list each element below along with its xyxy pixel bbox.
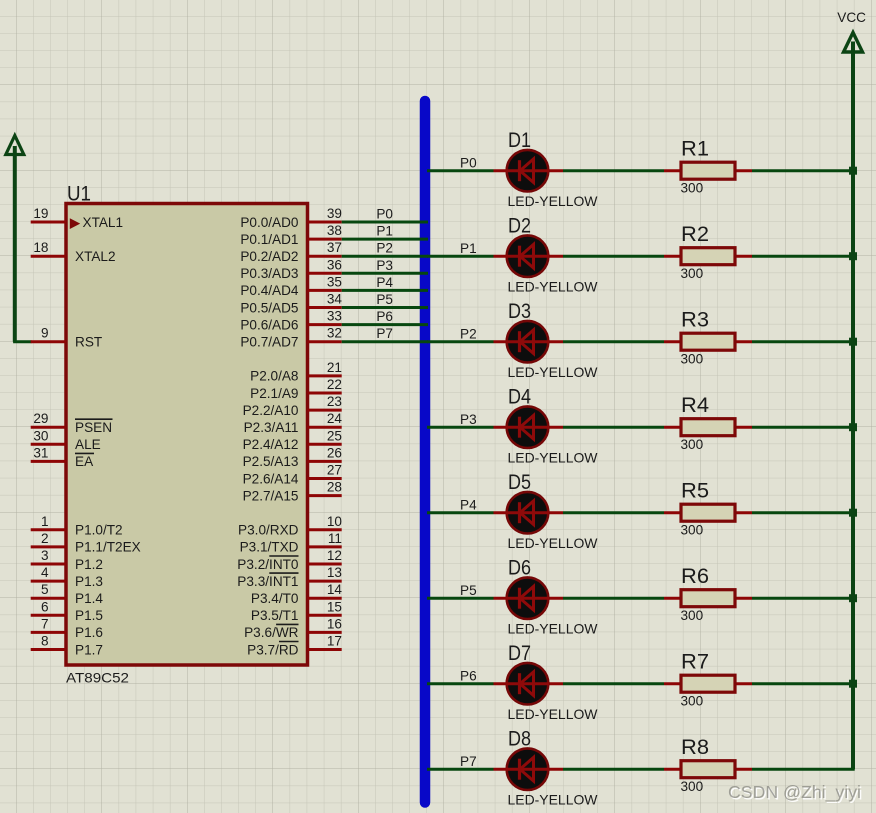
svg-text:P1.0/T2: P1.0/T2 [75,523,123,538]
svg-text:12: 12 [327,548,342,563]
pin 10 (P3.0/RXD) stub + number + name [238,514,342,538]
svg-text:P2.6/A14: P2.6/A14 [243,471,299,486]
LED D3 [494,321,564,363]
svg-text:D3: D3 [508,299,531,323]
svg-text:16: 16 [327,616,342,631]
LED D1 [494,150,564,192]
svg-text:LED-YELLOW: LED-YELLOW [508,622,598,637]
svg-text:P2.7/A15: P2.7/A15 [243,488,299,503]
pin 27 (P2.6/A14) stub + number + name [243,463,342,487]
svg-text:P2.4/A12: P2.4/A12 [243,437,299,452]
svg-text:18: 18 [33,240,48,255]
wire R4 to VCC rail [752,426,855,429]
pin 28 (P2.7/A15) stub + number + name [243,480,342,504]
svg-text:U1: U1 [67,181,91,205]
power symbol (up arrow, left) [6,136,24,342]
pin 30 (ALE) stub + number + name [31,428,101,452]
svg-text:300: 300 [681,694,704,709]
svg-text:P1.5: P1.5 [75,608,103,623]
svg-text:P1.4: P1.4 [75,591,103,606]
pin 39 (P0.0/AD0) stub + number + name [240,206,342,230]
svg-text:23: 23 [327,394,342,409]
svg-text:LED-YELLOW: LED-YELLOW [508,793,598,808]
svg-text:P0.2/AD2: P0.2/AD2 [240,249,298,264]
svg-text:P1.1/T2EX: P1.1/T2EX [75,540,141,555]
svg-text:EA: EA [75,454,94,469]
svg-text:2: 2 [41,531,49,546]
svg-text:R8: R8 [681,735,709,759]
pin 2 (P1.1/T2EX) stub + number + name [31,531,141,555]
wire D2 to R2 [563,255,664,258]
svg-text:P7: P7 [376,326,393,341]
pin 37 (P0.2/AD2) stub + number + name [240,240,342,264]
bus (vertical blue) [420,101,431,803]
svg-text:9: 9 [41,326,49,341]
wire P0.5 pin to bus [342,306,428,309]
wire R8 to VCC rail [752,768,855,771]
svg-text:14: 14 [327,582,343,597]
wire P0.6 pin to bus [342,323,428,326]
junction at VCC rail row 5 [849,509,857,517]
wire R5 to VCC rail [752,511,855,514]
svg-text:P3.0/RXD: P3.0/RXD [238,523,299,538]
svg-text:D8: D8 [508,727,531,751]
svg-text:P3.6/WR: P3.6/WR [244,625,299,640]
svg-text:P3.1/TXD: P3.1/TXD [240,540,299,555]
svg-text:35: 35 [327,274,342,289]
svg-text:P1.3: P1.3 [75,574,103,589]
svg-text:P0.5/AD5: P0.5/AD5 [240,300,298,315]
junction at VCC rail row 1 [849,167,857,175]
svg-text:R6: R6 [681,564,709,588]
resistor R1 [664,162,752,179]
pin 34 (P0.5/AD5) stub + number + name [240,292,342,316]
svg-text:5: 5 [41,582,49,597]
svg-text:P2.0/A8: P2.0/A8 [250,369,298,384]
svg-text:P3.4/T0: P3.4/T0 [251,591,299,606]
svg-text:P1: P1 [376,224,393,239]
svg-text:25: 25 [327,428,342,443]
svg-text:34: 34 [327,292,343,307]
svg-text:D2: D2 [508,214,531,238]
svg-text:38: 38 [327,223,342,238]
pin 16 (P3.6/WR) stub + number + name [244,616,342,640]
svg-text:LED-YELLOW: LED-YELLOW [508,365,598,380]
svg-text:39: 39 [327,206,342,221]
resistor R7 [664,675,752,692]
wire D6 to R6 [563,597,664,600]
wire bus to LED D8 [427,768,494,771]
svg-text:P7: P7 [460,754,477,769]
svg-text:P0: P0 [460,156,477,171]
pin 14 (P3.4/T0) stub + number + name [251,582,343,606]
svg-text:300: 300 [681,266,704,281]
svg-text:P2.1/A9: P2.1/A9 [250,386,298,401]
pin 1 (P1.0/T2) stub + number + name [31,514,123,538]
svg-text:P5: P5 [376,292,393,307]
svg-text:P0.7/AD7: P0.7/AD7 [240,335,298,350]
svg-text:300: 300 [681,437,704,452]
svg-text:300: 300 [681,352,704,367]
pin 19 (XTAL1) stub + number + name [31,206,123,230]
wire D8 to R8 [563,768,664,771]
svg-text:P3: P3 [460,412,477,427]
svg-text:P0.4/AD4: P0.4/AD4 [240,283,299,298]
svg-text:D5: D5 [508,470,531,494]
wire VCC rail (vertical right) [851,42,855,770]
svg-text:P1.7: P1.7 [75,642,103,657]
svg-text:AT89C52: AT89C52 [66,671,129,686]
pin 31 (EA) stub + number + name [31,445,94,469]
svg-text:1: 1 [41,514,49,529]
svg-text:300: 300 [681,779,704,794]
pin 18 (XTAL2) stub + number + name [31,240,116,264]
pin 4 (P1.3) stub + number + name [31,565,103,589]
wire R6 to VCC rail [752,597,855,600]
pin 8 (P1.7) stub + number + name [31,634,103,658]
pin 35 (P0.4/AD4) stub + number + name [240,274,342,298]
junction at VCC rail row 2 [849,252,857,260]
svg-text:33: 33 [327,309,342,324]
wire D5 to R5 [563,511,664,514]
svg-text:8: 8 [41,634,49,649]
resistor R5 [664,504,752,521]
svg-text:VCC: VCC [837,10,866,25]
pin 6 (P1.5) stub + number + name [31,599,103,623]
resistor R6 [664,590,752,607]
svg-text:P1: P1 [460,241,477,256]
wire R2 to VCC rail [752,255,855,258]
svg-text:R1: R1 [681,136,709,160]
svg-text:P0.6/AD6: P0.6/AD6 [240,317,298,332]
svg-text:XTAL1: XTAL1 [83,215,124,230]
svg-text:P3.5/T1: P3.5/T1 [251,608,299,623]
wire P0.3 pin to bus [342,272,428,275]
wire bus to LED D3 [427,340,494,343]
svg-text:P2: P2 [376,241,393,256]
svg-text:P2.5/A13: P2.5/A13 [243,454,299,469]
pin 3 (P1.2) stub + number + name [31,548,103,572]
wire P0.1 pin to bus [342,238,428,241]
svg-text:P0.0/AD0: P0.0/AD0 [240,215,299,230]
svg-text:300: 300 [681,523,704,538]
svg-text:D7: D7 [508,641,531,665]
LED D6 [494,577,564,619]
wire P0.7 pin to bus [342,340,428,343]
wire P0.2 pin to bus [342,255,428,258]
pin 11 (P3.1/TXD) stub + number + name [240,531,342,555]
svg-text:P2.3/A11: P2.3/A11 [244,420,299,435]
wire bus to LED D6 [427,597,494,600]
pin 15 (P3.5/T1) stub + number + name [251,599,342,623]
svg-text:29: 29 [33,411,48,426]
power symbol VCC (top right) [837,10,866,52]
svg-text:P0: P0 [376,207,393,222]
svg-text:26: 26 [327,445,342,460]
pin 12 (P3.2/INT0) stub + number + name [237,548,342,572]
wire D1 to R1 [563,169,664,172]
resistor R4 [664,419,752,436]
svg-text:300: 300 [681,181,704,196]
pin 29 (PSEN) stub + number + name [31,411,113,435]
wire bus to LED D7 [427,682,494,685]
wire bus to LED D1 [427,169,494,172]
wire bus to LED D4 [427,426,494,429]
svg-text:15: 15 [327,599,342,614]
svg-text:LED-YELLOW: LED-YELLOW [508,707,598,722]
svg-text:XTAL2: XTAL2 [75,249,116,264]
svg-text:R2: R2 [681,222,709,246]
svg-text:P3.7/RD: P3.7/RD [247,642,299,657]
svg-text:R7: R7 [681,649,709,673]
wire P0.4 pin to bus [342,289,428,292]
wire P0.0 pin to bus [342,221,428,224]
watermark CSDN @Zhi_yiyi [728,782,862,804]
svg-text:24: 24 [327,411,343,426]
svg-text:11: 11 [328,531,342,546]
svg-text:P1.2: P1.2 [75,557,103,572]
svg-text:10: 10 [327,514,343,529]
pin 36 (P0.3/AD3) stub + number + name [240,257,342,281]
svg-text:RST: RST [75,335,102,350]
svg-text:P3: P3 [376,258,393,273]
wire R7 to VCC rail [752,682,855,685]
pin 17 (P3.7/RD) stub + number + name [247,634,342,658]
svg-text:PSEN: PSEN [75,420,112,435]
svg-text:19: 19 [33,206,48,221]
pin 26 (P2.5/A13) stub + number + name [243,445,342,469]
junction at VCC rail row 4 [849,423,857,431]
svg-text:R3: R3 [681,307,709,331]
pin 23 (P2.2/A10) stub + number + name [243,394,342,418]
svg-text:P3.2/INT0: P3.2/INT0 [237,557,299,572]
junction at VCC rail row 7 [849,680,857,688]
pin 21 (P2.0/A8) stub + number + name [250,360,342,384]
svg-text:P2: P2 [460,327,477,342]
LED D4 [494,406,564,448]
wire D7 to R7 [563,682,664,685]
svg-text:P4: P4 [376,275,393,290]
pin 32 (P0.7/AD7) stub + number + name [240,326,342,350]
svg-text:D1: D1 [508,128,531,152]
wire D3 to R3 [563,340,664,343]
wire bus to LED D5 [427,511,494,514]
wire RST net [13,340,31,343]
wire R3 to VCC rail [752,340,855,343]
svg-text:R5: R5 [681,478,709,502]
svg-text:D4: D4 [508,385,531,409]
svg-text:P5: P5 [460,583,477,598]
svg-text:P3.3/INT1: P3.3/INT1 [237,574,298,589]
LED D5 [494,492,564,534]
wire D4 to R4 [563,426,664,429]
svg-text:7: 7 [41,616,49,631]
junction at VCC rail row 3 [849,338,857,346]
svg-text:27: 27 [327,463,342,478]
pin 22 (P2.1/A9) stub + number + name [250,377,342,401]
svg-text:P6: P6 [376,309,393,324]
svg-text:LED-YELLOW: LED-YELLOW [508,280,598,295]
svg-text:28: 28 [327,480,342,495]
svg-text:LED-YELLOW: LED-YELLOW [508,451,598,466]
svg-text:P6: P6 [460,669,477,684]
junction at VCC rail row 6 [849,594,857,602]
svg-text:6: 6 [41,599,49,614]
svg-text:P0.1/AD1: P0.1/AD1 [240,232,298,247]
pin 24 (P2.3/A11) stub + number + name [244,411,343,435]
resistor R3 [664,333,752,350]
svg-text:300: 300 [681,608,704,623]
svg-text:37: 37 [327,240,342,255]
pin 9 (RST) stub + number + name [31,326,102,350]
wire bus to LED D2 [427,255,494,258]
microcontroller U1 (AT89C52) body [66,204,308,666]
pin 33 (P0.6/AD6) stub + number + name [240,309,342,333]
pin 7 (P1.6) stub + number + name [31,616,103,640]
svg-text:P2.2/A10: P2.2/A10 [243,403,299,418]
XTAL1 clock marker [70,218,80,229]
svg-text:P1.6: P1.6 [75,625,103,640]
svg-text:31: 31 [33,445,48,460]
svg-text:P0.3/AD3: P0.3/AD3 [240,266,298,281]
svg-text:13: 13 [327,565,342,580]
LED D2 [494,235,564,277]
resistor R8 [664,761,752,778]
svg-text:R4: R4 [681,393,709,417]
svg-text:P4: P4 [460,498,477,513]
svg-text:LED-YELLOW: LED-YELLOW [508,194,598,209]
svg-text:D6: D6 [508,556,531,580]
svg-text:30: 30 [33,428,49,443]
svg-text:CSDN @Zhi_yiyi: CSDN @Zhi_yiyi [728,782,861,803]
LED D8 [494,748,564,790]
pin 13 (P3.3/INT1) stub + number + name [237,565,342,589]
wire R1 to VCC rail [752,169,855,172]
svg-text:3: 3 [41,548,49,563]
svg-text:LED-YELLOW: LED-YELLOW [508,536,598,551]
pin 5 (P1.4) stub + number + name [31,582,104,606]
svg-text:17: 17 [327,634,342,649]
pin 38 (P0.1/AD1) stub + number + name [240,223,342,247]
pin 25 (P2.4/A12) stub + number + name [243,428,342,452]
svg-text:22: 22 [327,377,342,392]
svg-text:ALE: ALE [75,437,101,452]
LED D7 [494,663,564,705]
resistor R2 [664,248,752,265]
svg-text:21: 21 [327,360,342,375]
svg-text:36: 36 [327,257,342,272]
svg-text:4: 4 [41,565,49,580]
svg-text:32: 32 [327,326,342,341]
